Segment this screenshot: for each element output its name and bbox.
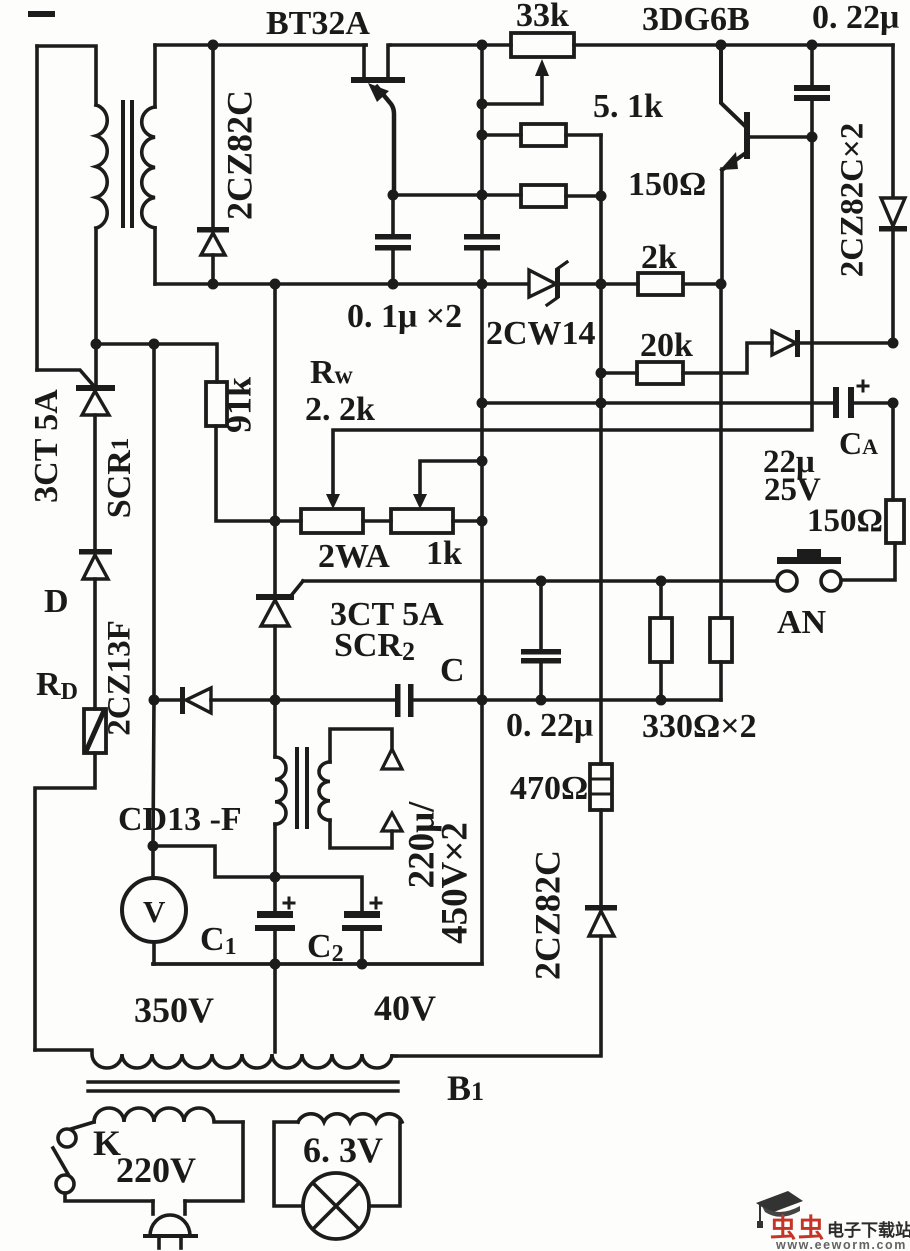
node dot y700 x541 (536, 695, 547, 706)
push button AN (777, 549, 841, 591)
svg-text:2k: 2k (641, 239, 677, 276)
plug (145, 1201, 196, 1248)
node dot 91k row x154 (149, 339, 160, 350)
resistor 330ohm no1 (650, 581, 672, 700)
resistor RD (84, 709, 106, 753)
node dot y964 x275 (270, 959, 281, 970)
wire 1k wiper row (420, 461, 482, 496)
node dot emitter wire (388, 190, 399, 201)
wire vertical x601 (599, 135, 603, 764)
transformer B3 secondary winding (142, 107, 155, 228)
wire RD bottom to left rail (35, 753, 95, 1050)
potentiometer wiper arrow 2WA (326, 494, 340, 509)
wire vertical x482 upper (480, 45, 484, 233)
svg-text:C2: C2 (307, 928, 344, 967)
thyristor SCR1 (37, 370, 115, 549)
wire top rail right segment (390, 43, 511, 47)
svg-text:SCR1: SCR1 (101, 438, 138, 519)
svg-text:330Ω×2: 330Ω×2 (642, 708, 757, 745)
resistor 330ohm no2 (710, 284, 732, 700)
svg-text:1k: 1k (426, 535, 462, 572)
transformer B3 core (123, 102, 132, 226)
wire mid rail (155, 282, 528, 286)
svg-text:B1: B1 (447, 1068, 484, 1108)
capacitor 0.22u bottom (521, 581, 561, 700)
svg-text:5. 1k: 5. 1k (593, 88, 663, 125)
zener diode 2CW14 (529, 262, 567, 305)
node dot cap top rail (807, 40, 818, 51)
wire 6.3V loop right (369, 1122, 400, 1206)
svg-text:40V: 40V (374, 988, 436, 1028)
svg-text:CD13 -F: CD13 -F (118, 801, 242, 838)
svg-text:2WA: 2WA (318, 538, 390, 575)
node dot y700 x661 (656, 695, 667, 706)
svg-text:RD: RD (36, 666, 78, 705)
potentiometer 33k (483, 33, 574, 104)
transformer B3 primary winding (96, 105, 107, 228)
wire B1 tap (273, 964, 277, 1052)
node dot CA row x601 (596, 398, 607, 409)
svg-text:3DG6B: 3DG6B (642, 1, 750, 38)
wire y700 row left (154, 698, 180, 702)
node dot mid rail cap2 (477, 279, 488, 290)
pulse transformer B2 core (297, 749, 307, 827)
node dot CD13F (148, 841, 159, 852)
svg-text:0. 22μ: 0. 22μ (812, 0, 899, 36)
node dot 1k wiper (477, 456, 488, 467)
wire primary bottom lead (94, 228, 98, 385)
capacitor 0.1u no2 (464, 234, 500, 284)
node dot right rail CA row (888, 398, 899, 409)
node dot pot right (477, 516, 488, 527)
transformer B1 core (88, 1082, 398, 1091)
svg-text:0. 22μ: 0. 22μ (506, 707, 593, 744)
capacitor C2 (342, 898, 382, 964)
stray mark top-left (28, 11, 55, 17)
svg-text:470Ω: 470Ω (510, 770, 588, 807)
svg-text:450V×2: 450V×2 (434, 822, 475, 944)
svg-text:D: D (44, 583, 69, 620)
wire 1k right lead (453, 519, 482, 523)
svg-text:2CZ82C: 2CZ82C (527, 850, 567, 980)
node dot 3DG6B base (807, 132, 818, 143)
wire top rail left segment (155, 43, 366, 47)
pulse transformer B2 secondary (319, 729, 402, 848)
svg-text:2CZ82C: 2CZ82C (219, 90, 259, 220)
svg-text:2CW14: 2CW14 (486, 315, 596, 352)
svg-text:电子下载站: 电子下载站 (827, 1220, 910, 1240)
svg-text:150Ω: 150Ω (807, 503, 883, 539)
wire secondary bottom lead to mid rail (153, 228, 157, 284)
lamp (303, 1173, 369, 1239)
resistor 91k (206, 382, 227, 426)
wire right rail mid (891, 403, 895, 500)
wire 6.3V loop left (274, 1122, 303, 1206)
resistor 150ohm right (886, 500, 904, 543)
wire y877 to C2 (275, 877, 362, 911)
node dot y964 x362 (357, 959, 368, 970)
wire secondary top lead (153, 45, 157, 107)
transistor BT32A (UJT) (351, 45, 405, 193)
node dot 91k row x96 (91, 339, 102, 350)
diode 2CZ82C left (197, 45, 229, 284)
node dot top diode (208, 40, 219, 51)
node dot 3DG6B collector (716, 40, 727, 51)
svg-text:150Ω: 150Ω (628, 166, 706, 203)
wire vertical x482 lower (153, 284, 482, 964)
diode right of 20k (772, 330, 893, 357)
watermark logo cap (756, 1191, 803, 1228)
transformer B1 220V winding (94, 1108, 243, 1122)
capacitor C1 (255, 877, 295, 964)
wire x154 vertical (152, 344, 156, 700)
svg-text:Rw: Rw (310, 354, 353, 391)
transformer B1 top winding (35, 1050, 396, 1068)
wire x154 lower (153, 700, 154, 846)
potentiometer 2WA (301, 509, 363, 533)
wire CD13F row (153, 846, 275, 877)
node dot 150 left (477, 190, 488, 201)
node dot y700 x482 (477, 695, 488, 706)
node dot 20k left (596, 368, 607, 379)
svg-text:BT32A: BT32A (266, 5, 370, 42)
transistor 3DG6B (720, 45, 812, 284)
node dot wiper wire (477, 99, 488, 110)
node dot mid rail cap1 (388, 279, 399, 290)
resistor 5.1k (482, 124, 601, 146)
node dot 5k1 left (477, 130, 488, 141)
wire top-left link (37, 46, 96, 105)
wire y700 row right (413, 698, 721, 702)
node dot x275 y877 (270, 872, 281, 883)
diode D (79, 549, 112, 709)
node dot y700 x275 (270, 695, 281, 706)
voltmeter V (122, 846, 186, 964)
svg-text:CA: CA (839, 425, 878, 461)
svg-text:220V: 220V (116, 1150, 196, 1190)
wire between pots (363, 519, 391, 523)
resistor 2k (638, 273, 683, 295)
node dot mid rail x275 (270, 279, 281, 290)
wire 91k bottom to pots (216, 426, 301, 521)
capacitor 0.22u top right (794, 45, 830, 137)
wire right rail to AN (842, 543, 895, 580)
diode 2CZ82C bottom (396, 810, 617, 1056)
diode 2CZ82C right rail (879, 198, 907, 343)
capacitor C (395, 684, 414, 717)
wire SCR2 gate row y580 (303, 579, 777, 583)
svg-text:2CZ82C×2: 2CZ82C×2 (835, 123, 871, 277)
transformer B1 6.3V winding (298, 1114, 402, 1122)
svg-text:33k: 33k (516, 0, 569, 34)
svg-text:20k: 20k (640, 327, 693, 364)
thyristor SCR2 (256, 284, 303, 700)
svg-text:www.eeworm.com: www.eeworm.com (775, 1238, 907, 1251)
potentiometer wiper arrow 1k (413, 494, 427, 509)
node dot mid rail x601 (596, 279, 607, 290)
capacitor CA electrolytic (833, 381, 893, 418)
node dot rail 33k left (477, 40, 488, 51)
svg-text:C: C (440, 652, 465, 689)
svg-text:350V: 350V (134, 990, 214, 1030)
resistor 470ohm (590, 764, 612, 810)
svg-text:6. 3V: 6. 3V (303, 1130, 383, 1170)
svg-text:2. 2k: 2. 2k (305, 391, 375, 428)
wire 91k top row (96, 344, 217, 382)
svg-text:C1: C1 (200, 921, 237, 960)
switch K (53, 1122, 153, 1201)
wire right rail upper (891, 45, 895, 196)
potentiometer 1k (391, 509, 453, 533)
wire CA row (482, 401, 835, 405)
wire bottom rail y964 (153, 962, 482, 966)
node dot mid rail diode (208, 279, 219, 290)
svg-text:3CT 5A: 3CT 5A (28, 389, 65, 503)
node dot diode row left (149, 695, 160, 706)
pulse transformer B2 primary (275, 700, 286, 877)
resistor 150ohm upper (393, 185, 601, 207)
svg-text:AN: AN (777, 604, 827, 641)
svg-text:0. 1μ ×2: 0. 1μ ×2 (347, 298, 462, 335)
node dot gate row x541 (536, 576, 547, 587)
node dot x601 150 (596, 191, 607, 202)
node dot right rail diode row (888, 338, 899, 349)
node dot CA row left (477, 398, 488, 409)
wire 220V right side (185, 1122, 243, 1201)
diode on y700 row (180, 687, 211, 714)
node dot mid rail right end (716, 279, 727, 290)
wire left rail upper (35, 46, 39, 370)
wire base drive row y430 (333, 137, 812, 496)
capacitor 0.1u no1 (375, 195, 411, 284)
node dot gate row x661 (656, 576, 667, 587)
node dot pots row x275 (270, 516, 281, 527)
wire top rail after 33k (574, 43, 893, 47)
resistor 20k (601, 343, 772, 384)
svg-text:V: V (143, 894, 166, 929)
